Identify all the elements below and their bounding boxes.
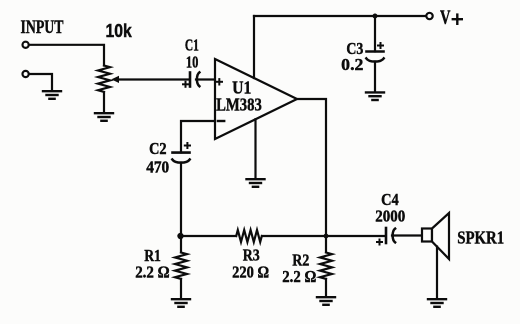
resistor R3: [236, 230, 262, 242]
ground potentiometer: [95, 113, 113, 121]
svg-text:10k: 10k: [106, 21, 133, 41]
wire C2 to bottom node: [180, 163, 182, 237]
wire op-amp top to V+ rail: [253, 16, 255, 78]
svg-text:10: 10: [186, 52, 199, 71]
svg-text:470: 470: [146, 158, 169, 177]
node junction V+ rail: [373, 14, 378, 19]
wire potentiometer to ground: [103, 93, 105, 113]
resistor R2: [320, 236, 332, 297]
svg-text:SPKR1: SPKR1: [457, 228, 504, 248]
svg-text:LM383: LM383: [216, 95, 262, 115]
ground input: [43, 91, 61, 99]
capacitor C4: [377, 228, 395, 245]
resistor R1: [175, 236, 187, 299]
wiper arrow: [111, 76, 189, 83]
ground R2: [317, 297, 335, 305]
capacitor C1: [183, 72, 199, 86]
wire op-amp inverting input to C2: [181, 121, 215, 153]
wire op-amp bottom to ground: [254, 119, 256, 178]
op-amp U1: [215, 59, 297, 139]
svg-text:0.2: 0.2: [341, 55, 363, 74]
wire C3 to ground: [374, 62, 376, 92]
input terminal J1b: [23, 71, 29, 77]
input terminal J1a: [23, 42, 29, 48]
ground speaker: [428, 299, 446, 307]
potentiometer 10k: [98, 66, 110, 92]
node junction R2: [324, 234, 329, 239]
wire C4 to speaker: [392, 234, 422, 236]
wire bottom rail right: [263, 235, 386, 237]
ground op-amp: [247, 179, 265, 187]
terminal V+: [426, 13, 432, 19]
svg-text:2.2 Ω: 2.2 Ω: [135, 263, 170, 282]
wire V+ rail: [254, 15, 426, 17]
svg-text:2.2 Ω: 2.2 Ω: [282, 267, 316, 286]
op-amp plus input mark: [217, 79, 222, 84]
svg-text:INPUT: INPUT: [21, 17, 64, 38]
wire lower terminal to ground: [29, 74, 52, 91]
svg-text:220 Ω: 220 Ω: [232, 263, 269, 282]
wire bottom rail left: [181, 235, 236, 237]
svg-text:R3: R3: [243, 245, 260, 264]
capacitor C2: [172, 143, 190, 163]
ground R1: [172, 299, 190, 307]
wire speaker to ground: [436, 247, 438, 299]
capacitor C3: [366, 16, 383, 62]
wire op-amp output down to feedback node: [297, 99, 326, 236]
speaker SPKR1: [422, 213, 449, 259]
wire input top to potentiometer: [29, 45, 104, 66]
op-amp minus input mark: [218, 120, 224, 122]
svg-text:C2: C2: [149, 139, 167, 158]
label V+: [440, 7, 462, 29]
ground C3: [366, 92, 384, 100]
svg-text:2000: 2000: [375, 207, 405, 226]
node junction R1: [177, 233, 183, 239]
wire C1 to op-amp: [196, 78, 215, 80]
svg-text:V: V: [440, 7, 451, 29]
